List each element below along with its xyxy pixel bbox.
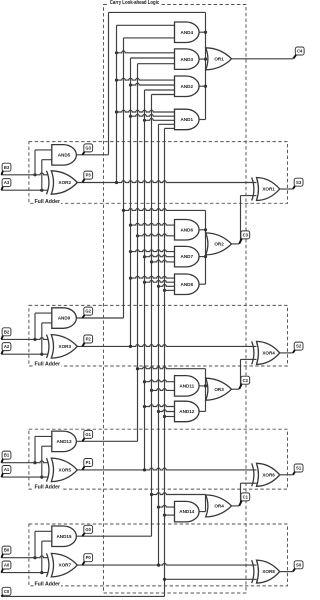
tag S1	[293, 464, 303, 475]
wire input A0	[1, 571, 48, 574]
carry look-ahead logic label	[109, 0, 161, 6]
or-gate OR4	[206, 495, 232, 517]
input wires of AND2	[115, 78, 177, 94]
tag P0	[82, 554, 92, 565]
svg-text:C1: C1	[243, 494, 249, 499]
svg-text:G3: G3	[85, 146, 91, 151]
tag C1	[239, 493, 250, 506]
wire input A1	[1, 476, 48, 479]
wire input B2	[1, 338, 48, 341]
svg-text:AND4: AND4	[181, 30, 194, 35]
input wires of AND14	[157, 505, 177, 516]
wire riser G0	[151, 95, 153, 537]
svg-text:AND9: AND9	[58, 316, 71, 321]
wire input C0	[1, 595, 164, 597]
tag S3	[293, 178, 303, 189]
or-gate OR3	[206, 378, 232, 400]
tag G1	[82, 430, 92, 441]
output wire of AND3	[199, 58, 206, 60]
and-gate AND7	[175, 246, 200, 267]
tag A0	[1, 561, 11, 573]
tag A2	[1, 343, 11, 355]
svg-text:OR2: OR2	[214, 242, 224, 247]
tag P2	[82, 335, 92, 346]
input wires of AND7	[129, 250, 177, 264]
svg-text:XOR3: XOR3	[59, 344, 72, 349]
wire C3 from OR output up to sum XOR	[232, 196, 257, 244]
wire P1 to sum XOR	[77, 468, 257, 471]
svg-text:C4: C4	[297, 49, 303, 54]
output wire of AND12	[199, 410, 206, 412]
svg-text:A3: A3	[4, 180, 10, 185]
wire G2 to riser	[76, 317, 123, 319]
xor-gate XOR2	[47, 171, 78, 194]
svg-text:B3: B3	[4, 165, 10, 170]
input wires of AND3	[115, 51, 177, 64]
svg-text:A1: A1	[4, 467, 10, 472]
output wire of AND1	[199, 119, 206, 121]
tag G3	[82, 144, 92, 155]
wire C0 branch to XOR8	[163, 578, 257, 581]
full adder 1 block boundary	[29, 429, 288, 489]
and-gate AND1	[175, 109, 200, 130]
svg-text:P0: P0	[86, 555, 92, 560]
svg-text:AND8: AND8	[181, 282, 194, 287]
full adder 0 block boundary	[29, 524, 288, 586]
wire A2 branch to AND9	[42, 323, 54, 354]
svg-text:A0: A0	[4, 563, 10, 568]
svg-text:G0: G0	[85, 527, 91, 532]
svg-text:AND14: AND14	[179, 509, 195, 514]
svg-text:G1: G1	[85, 432, 91, 437]
svg-text:AND3: AND3	[181, 57, 194, 62]
svg-text:XOR6: XOR6	[262, 472, 275, 477]
full adder 3 label	[34, 198, 62, 205]
svg-text:C3: C3	[243, 233, 249, 238]
svg-text:A2: A2	[4, 344, 10, 349]
svg-text:AND12: AND12	[179, 409, 195, 414]
tag C3	[239, 231, 250, 244]
wire bus to OR4	[205, 495, 207, 512]
svg-text:AND5: AND5	[58, 152, 71, 157]
wire G1 route to OR3	[136, 367, 206, 370]
wire G3 to riser	[76, 154, 108, 156]
svg-text:XOR5: XOR5	[59, 468, 72, 473]
tag P3	[82, 171, 92, 182]
wire output of XOR1	[279, 188, 292, 190]
xor-gate XOR6	[252, 463, 280, 486]
and-gate AND15	[52, 526, 77, 547]
tag C0	[1, 587, 11, 596]
output wire of AND11	[199, 385, 206, 387]
svg-text:P2: P2	[86, 337, 92, 342]
and-gate AND5	[52, 145, 77, 166]
and-gate AND3	[175, 49, 200, 70]
output wire of OR1 to C4	[232, 58, 294, 60]
wire riser P1	[144, 90, 146, 470]
svg-text:Carry Look-ahead Logic: Carry Look-ahead Logic	[110, 0, 160, 6]
wire G3 top route	[109, 11, 206, 13]
svg-text:Full Adder: Full Adder	[35, 485, 61, 491]
input wires of AND1	[115, 110, 177, 128]
xor-gate XOR7	[47, 553, 78, 577]
tag A1	[1, 466, 11, 478]
svg-text:AND6: AND6	[181, 227, 194, 232]
svg-text:OR4: OR4	[214, 504, 224, 509]
input wires of AND12	[143, 405, 177, 418]
wire B1 branch to AND13	[35, 436, 54, 462]
tag B1	[1, 451, 11, 463]
tag P1	[82, 459, 92, 470]
tag C4	[293, 47, 304, 59]
and-gate AND6	[175, 220, 200, 241]
tag A3	[1, 179, 11, 191]
svg-text:AND15: AND15	[56, 534, 72, 539]
wire A0 branch to AND15	[42, 541, 54, 573]
wire B0 branch to AND15	[35, 531, 54, 557]
carry look-ahead logic block boundary	[104, 5, 247, 594]
svg-text:XOR2: XOR2	[59, 180, 72, 185]
svg-text:XOR1: XOR1	[262, 187, 275, 192]
svg-text:AND13: AND13	[56, 439, 72, 444]
and-gate AND13	[52, 431, 77, 452]
wire G2 route to OR2	[122, 209, 206, 212]
input wires of AND8	[129, 276, 177, 292]
tag B0	[1, 546, 11, 558]
wire output of XOR6	[279, 474, 292, 476]
svg-text:S2: S2	[296, 344, 302, 349]
and-gate AND11	[175, 376, 200, 397]
xor-gate XOR4	[252, 341, 280, 364]
tag B3	[1, 163, 11, 175]
and-gate AND2	[175, 76, 200, 97]
svg-text:S0: S0	[296, 562, 302, 567]
wire riser P3	[116, 25, 118, 182]
svg-text:B1: B1	[4, 453, 10, 458]
and-gate AND8	[175, 274, 200, 295]
full adder 0 label	[34, 581, 62, 588]
svg-text:XOR7: XOR7	[59, 563, 72, 568]
wire input A3	[1, 189, 48, 192]
and-gate AND14	[175, 501, 200, 522]
wire P0 to sum XOR	[77, 563, 257, 566]
svg-text:OR1: OR1	[214, 56, 224, 61]
tag S0	[293, 561, 303, 572]
svg-text:OR3: OR3	[214, 387, 224, 392]
wire input B0	[1, 556, 48, 559]
wire G0 route to OR4	[150, 493, 206, 496]
output wire of AND6	[199, 229, 206, 231]
wire G0 to riser	[76, 535, 151, 537]
or-gate OR2	[206, 233, 232, 255]
input wires of AND6	[129, 223, 177, 237]
wire output of XOR4	[279, 352, 292, 354]
or-gate OR1	[206, 48, 232, 70]
full adder 1 label	[34, 484, 62, 491]
svg-text:XOR4: XOR4	[262, 351, 275, 356]
wire bus to OR2	[204, 210, 207, 284]
svg-text:P1: P1	[86, 460, 92, 465]
tag B2	[1, 328, 11, 340]
output wire of AND7	[199, 256, 206, 258]
wire C1 from OR output up to sum XOR	[232, 483, 257, 506]
tag G2	[82, 307, 92, 318]
full adder 3 block boundary	[29, 142, 288, 204]
and-gate AND4	[175, 22, 200, 43]
tag S2	[293, 342, 303, 353]
svg-text:S1: S1	[296, 466, 302, 471]
svg-text:Full Adder: Full Adder	[35, 581, 61, 587]
wire riser P0	[158, 124, 160, 565]
wire bus to OR1	[204, 12, 207, 119]
svg-text:AND1: AND1	[181, 117, 194, 122]
wire B3 branch to AND5	[35, 150, 54, 175]
svg-text:B0: B0	[4, 548, 10, 553]
svg-text:S3: S3	[296, 180, 302, 185]
svg-text:Full Adder: Full Adder	[35, 199, 61, 205]
tag G0	[82, 525, 92, 536]
and-gate AND9	[52, 308, 77, 329]
wire riser C0	[164, 128, 166, 596]
output wire of AND14	[199, 511, 206, 513]
svg-text:C0: C0	[4, 589, 10, 594]
xor-gate XOR5	[47, 458, 78, 482]
svg-text:AND2: AND2	[181, 84, 194, 89]
svg-text:P3: P3	[86, 173, 92, 178]
wire C2 from OR output up to sum XOR	[232, 359, 257, 389]
output wire of AND8	[199, 283, 206, 285]
output wire of AND2	[199, 85, 206, 87]
wire B2 branch to AND9	[35, 313, 54, 339]
svg-text:AND7: AND7	[181, 254, 194, 259]
wire input B1	[1, 461, 48, 464]
wire bus to OR3	[204, 369, 207, 412]
svg-text:XOR8: XOR8	[262, 569, 275, 574]
svg-text:C2: C2	[243, 378, 249, 383]
wire riser G2	[123, 38, 125, 318]
wire G1 to riser	[76, 440, 137, 442]
xor-gate XOR1	[252, 178, 280, 201]
wire riser G1	[137, 64, 139, 442]
wire A3 branch to AND5	[42, 160, 54, 191]
wire P3 to sum XOR	[77, 181, 257, 184]
wire output of XOR8	[279, 571, 292, 573]
svg-text:G2: G2	[85, 309, 91, 314]
xor-gate XOR8	[252, 560, 280, 583]
input wires of AND11	[143, 380, 177, 392]
wire riser P2	[130, 58, 132, 346]
output wire of AND4	[199, 31, 206, 33]
svg-text:AND11: AND11	[179, 384, 194, 389]
wire A1 branch to AND13	[42, 446, 54, 477]
full adder 2 label	[34, 361, 62, 368]
svg-text:Full Adder: Full Adder	[35, 362, 61, 368]
wire P2 to sum XOR	[77, 345, 257, 348]
tag C2	[239, 376, 250, 389]
and-gate AND12	[175, 401, 200, 422]
wire input B3	[1, 173, 48, 176]
wire input A2	[1, 353, 48, 356]
svg-text:B2: B2	[4, 329, 10, 334]
input wires of AND4	[117, 25, 177, 38]
full adder 2 block boundary	[29, 305, 288, 366]
wire G3 riser	[108, 12, 110, 154]
xor-gate XOR3	[47, 335, 78, 359]
